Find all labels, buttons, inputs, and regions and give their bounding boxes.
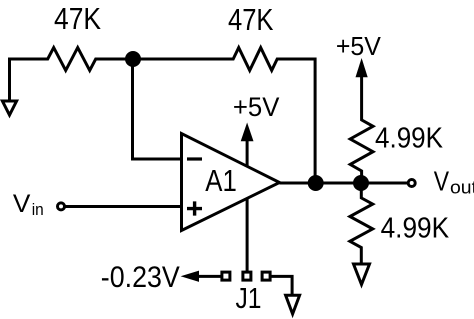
- svg-text:J1: J1: [236, 283, 262, 315]
- svg-text:out: out: [450, 178, 474, 199]
- svg-text:47K: 47K: [228, 3, 274, 37]
- svg-text:in: in: [32, 200, 44, 219]
- svg-text:A1: A1: [205, 164, 237, 198]
- svg-text:+5V: +5V: [233, 92, 280, 122]
- svg-text:4.99K: 4.99K: [381, 213, 450, 245]
- svg-text:47K: 47K: [54, 3, 101, 36]
- svg-text:V: V: [13, 190, 31, 218]
- svg-text:+5V: +5V: [336, 31, 382, 61]
- svg-text:4.99K: 4.99K: [375, 121, 443, 153]
- svg-text:-0.23V: -0.23V: [101, 261, 180, 294]
- svg-text:V: V: [434, 166, 450, 197]
